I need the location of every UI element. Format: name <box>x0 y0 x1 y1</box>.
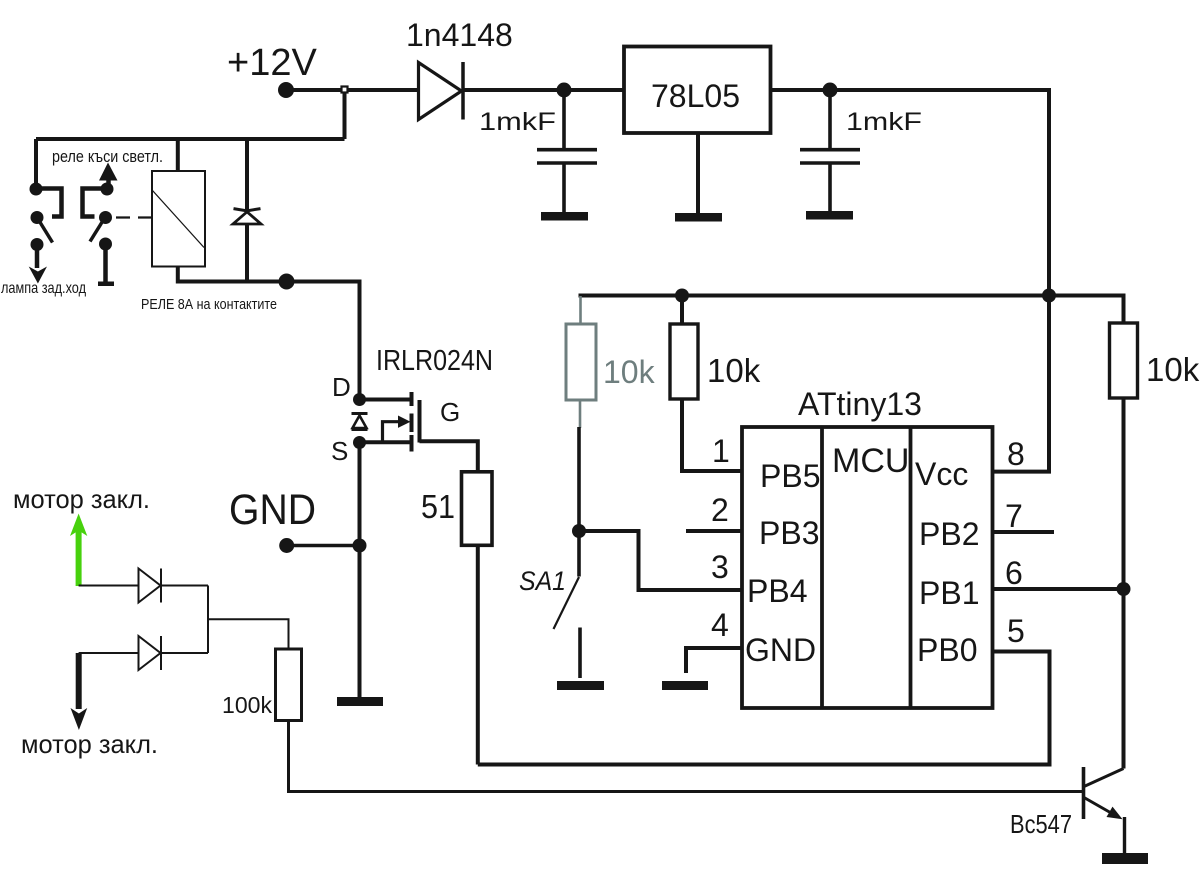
svg-text:S: S <box>331 436 348 466</box>
IC U1 ATtiny13 box <box>742 427 993 708</box>
wire pin4 to ground <box>686 648 742 673</box>
wire pin8 Vcc <box>993 296 1050 472</box>
ground C2 <box>806 211 853 220</box>
wire arrow shaft <box>106 180 111 189</box>
svg-text:8: 8 <box>1007 436 1025 472</box>
junction dot rail at 5V column <box>1042 289 1056 303</box>
svg-text:3: 3 <box>711 549 729 585</box>
junction square node <box>342 87 348 93</box>
diode D1 cathode bar <box>461 62 465 120</box>
svg-text:Vcc: Vcc <box>915 456 968 492</box>
wire relay top rail <box>36 137 345 141</box>
wire D3 out <box>161 585 208 587</box>
svg-text:2: 2 <box>711 492 729 528</box>
svg-text:PB2: PB2 <box>919 516 979 552</box>
wire GND tap <box>287 544 360 547</box>
ground Q2 <box>1102 853 1148 864</box>
ground Q1 source <box>337 697 383 706</box>
contact K1b top terminal dot <box>101 183 114 196</box>
svg-text:D: D <box>332 372 351 402</box>
contact K1b lower terminal dot <box>99 238 112 251</box>
svg-text:5: 5 <box>1007 613 1025 649</box>
arrow up relay feed <box>99 163 118 181</box>
contact K1b common dot <box>99 211 112 224</box>
svg-text:1mkF: 1mkF <box>479 108 556 136</box>
svg-text:GND: GND <box>745 632 816 668</box>
svg-text:РЕЛЕ 8А на контактите: РЕЛЕ 8А на контактите <box>141 297 277 313</box>
node +12V terminal dot <box>278 82 294 98</box>
diode D2 cathode bar <box>234 209 261 211</box>
wire diode junction column <box>207 586 209 654</box>
wire contact to terminal bar <box>103 244 108 282</box>
MOSFET Q1 channel bars <box>410 392 414 406</box>
terminal T-bar <box>98 282 114 287</box>
contact K1a lower terminal dot <box>31 238 44 251</box>
resistor R5 100k box <box>276 649 302 721</box>
wire gate to resistor R3 <box>420 441 478 472</box>
wire R2 to pin1 <box>682 399 741 471</box>
contact K1a top terminal dot <box>30 183 43 196</box>
wire pin6 to collector node <box>993 587 1124 591</box>
wire Vcc mid rail <box>581 296 1124 324</box>
wire D1 to regulator U2 <box>463 88 625 92</box>
wire coil bottom pin and bottom rail <box>178 267 287 282</box>
node drain dot <box>353 393 366 406</box>
svg-text:SA1: SA1 <box>519 566 566 596</box>
svg-text:лампа зад.ход: лампа зад.ход <box>1 280 87 297</box>
junction dot drain node <box>279 274 295 290</box>
regulator U2 78L05 box <box>624 47 771 134</box>
switch SA1 blade <box>554 577 580 629</box>
transistor Q2 emitter diagonal <box>1084 798 1112 814</box>
wire SA1 stub <box>577 531 581 577</box>
wire emitter down <box>1123 817 1126 853</box>
ground U2 <box>675 213 722 222</box>
resistor R4 10k box <box>1110 323 1138 398</box>
resistor R1 10k gray box <box>579 296 582 324</box>
relay coil K1 box <box>152 171 205 267</box>
flyback diode D2 wire top <box>245 139 249 210</box>
wire R3 bottom to pin5 net <box>476 545 480 764</box>
wire coil top pin <box>176 139 180 171</box>
wire to resistor R5 <box>208 619 289 649</box>
wire source to channel <box>360 440 412 444</box>
body diode triangle <box>353 416 367 429</box>
svg-text:PB1: PB1 <box>919 575 979 611</box>
svg-text:10k: 10k <box>603 354 656 390</box>
svg-text:10k: 10k <box>1146 351 1200 388</box>
svg-text:7: 7 <box>1005 498 1023 534</box>
contact K1b fixed hook <box>83 189 108 217</box>
svg-text:G: G <box>440 397 460 427</box>
svg-text:MCU: MCU <box>832 442 909 480</box>
wire +12V to diode D1 <box>286 88 419 92</box>
wire drain to channel <box>360 398 412 402</box>
svg-text:PB4: PB4 <box>747 573 807 609</box>
junction dot pin6 <box>1117 582 1131 596</box>
svg-text:ATtiny13: ATtiny13 <box>798 386 922 422</box>
wire pin7 stub <box>993 530 1055 534</box>
ground pin4 <box>662 681 708 690</box>
contact K1a common dot <box>31 211 44 224</box>
switch SA1 fixed contact <box>578 628 582 679</box>
wire pin2 stub <box>686 529 742 533</box>
wire R2 top <box>680 296 684 325</box>
IC internal divider right <box>909 427 913 708</box>
ground SA1 <box>557 681 604 690</box>
svg-text:1n4148: 1n4148 <box>406 17 513 53</box>
wire D2 bottom <box>245 224 249 282</box>
svg-text:+12V: +12V <box>227 42 317 84</box>
arrow motor black <box>76 653 82 709</box>
body diode cathode bar <box>352 412 368 415</box>
wire 5V rail to right corner <box>771 90 1050 296</box>
wire to MOSFET drain <box>287 282 360 400</box>
contact K1b blade <box>90 219 104 242</box>
svg-text:100k: 100k <box>222 692 273 718</box>
relay coil diagonal <box>153 191 205 248</box>
transistor Q2 emitter arrowhead <box>1107 807 1123 820</box>
capacitor C2 <box>828 90 832 150</box>
resistor R3 51 box <box>462 472 493 546</box>
transistor Q2 base bar <box>1082 767 1086 819</box>
resistor R2 10k box <box>670 324 698 399</box>
svg-text:Bc547: Bc547 <box>1010 809 1072 839</box>
wire down to relay rail <box>343 92 347 139</box>
diode D2 triangle <box>233 212 261 224</box>
contact K1a blade <box>38 219 53 243</box>
IC internal divider left <box>820 427 824 708</box>
diode D3 <box>139 569 161 603</box>
svg-text:PB5: PB5 <box>760 458 820 494</box>
svg-text:1mkF: 1mkF <box>846 108 922 136</box>
wire D4 left <box>79 652 139 654</box>
svg-text:78L05: 78L05 <box>651 78 740 114</box>
wire R4 bottom to collector <box>1122 398 1126 769</box>
svg-text:PB3: PB3 <box>759 515 819 551</box>
diode D1 triangle <box>419 63 462 120</box>
transistor Q2 collector diagonal <box>1084 769 1124 787</box>
arrow to лампа зад.ход <box>29 267 47 284</box>
capacitor C1 <box>562 90 566 150</box>
diode D4 <box>139 636 161 670</box>
wire to lamp arrow <box>35 245 40 269</box>
MOSFET Q1 gate electrode <box>418 400 422 443</box>
svg-text:6: 6 <box>1005 555 1023 591</box>
wire source down to ground <box>358 443 362 699</box>
svg-text:мотор закл.: мотор закл. <box>13 484 150 514</box>
svg-text:PB0: PB0 <box>917 632 977 668</box>
junction dot node 5V <box>823 83 838 98</box>
wire regulator U2 ground pin <box>696 133 700 214</box>
ground C1 <box>541 212 588 221</box>
svg-text:51: 51 <box>421 488 455 525</box>
wire SA1 to pin3 PB4 <box>579 531 741 590</box>
svg-text:10k: 10k <box>707 352 761 389</box>
node GND terminal dot <box>279 538 294 553</box>
body connection arrow <box>383 422 400 442</box>
junction dot rail at R2 <box>675 289 689 303</box>
svg-text:IRLR024N: IRLR024N <box>376 345 493 377</box>
wire pin5 to R3 bottom <box>478 652 1050 765</box>
svg-text:мотор закл.: мотор закл. <box>21 729 158 759</box>
contact K1a fixed hook <box>36 189 62 217</box>
arrow motor green <box>76 528 82 586</box>
wire D4 right <box>161 652 208 654</box>
wire to diode D3 <box>79 585 139 587</box>
node source dot <box>353 436 366 449</box>
dashed actuator link <box>116 216 151 218</box>
svg-text:реле къси светл.: реле къси светл. <box>52 147 163 166</box>
wire R1 to SA1 <box>577 427 581 531</box>
wire R5 bottom to base <box>289 721 1084 792</box>
svg-text:4: 4 <box>711 607 729 643</box>
junction dot source ground <box>353 539 367 553</box>
junction dot node VIN <box>557 83 572 98</box>
svg-text:GND: GND <box>229 486 316 534</box>
svg-text:1: 1 <box>712 433 730 469</box>
junction dot SA1 node <box>572 524 586 538</box>
wire left contact drop <box>34 139 38 189</box>
